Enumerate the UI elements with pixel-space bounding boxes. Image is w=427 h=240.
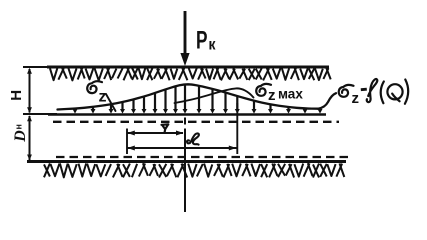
svg-text:P: P [196, 27, 208, 55]
svg-text:к: к [209, 37, 217, 54]
svg-text:z: z [352, 90, 360, 107]
svg-text:D: D [12, 130, 29, 143]
svg-text:H: H [8, 90, 25, 101]
svg-text:н: н [14, 124, 24, 129]
svg-text:мах: мах [278, 87, 303, 102]
svg-text:z: z [99, 89, 107, 106]
svg-text:z: z [268, 87, 276, 104]
